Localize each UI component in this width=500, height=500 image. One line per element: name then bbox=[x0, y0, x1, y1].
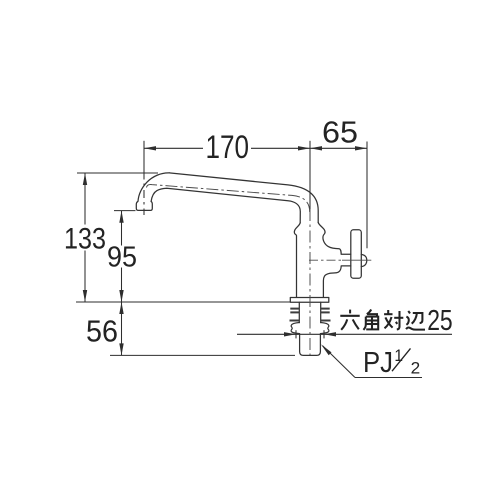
svg-text:PJ: PJ bbox=[363, 347, 393, 379]
svg-text:170: 170 bbox=[206, 129, 250, 165]
svg-text:25: 25 bbox=[427, 305, 453, 337]
svg-text:95: 95 bbox=[107, 241, 137, 273]
svg-text:65: 65 bbox=[322, 115, 358, 150]
svg-text:2: 2 bbox=[411, 359, 421, 378]
svg-text:133: 133 bbox=[64, 222, 106, 255]
svg-text:56: 56 bbox=[86, 313, 118, 348]
